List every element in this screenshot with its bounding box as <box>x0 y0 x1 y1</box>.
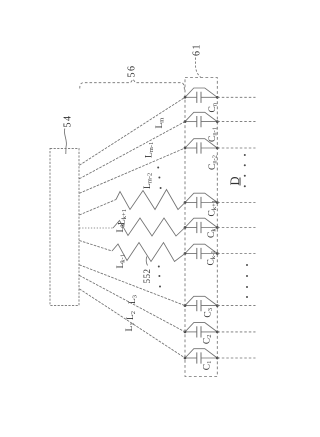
capacitor Cn-1 plates <box>196 116 198 127</box>
ellipsis dots in upper output gap <box>244 154 246 187</box>
leader line for label 552 <box>146 257 147 266</box>
LC unit 9: wire from capacitor to output node <box>201 357 217 359</box>
LC unit 3: input node <box>184 147 187 150</box>
LC unit 7: inductor hump <box>185 296 217 305</box>
LC unit 3: output wire <box>217 147 255 149</box>
LC unit 3: inductor hump <box>185 139 217 148</box>
svg-text:56: 56 <box>127 65 138 78</box>
LC unit 9: input node <box>184 357 187 360</box>
wire Lm-1 <box>79 122 185 179</box>
ellipsis dots between Lm-2 and Lk+1 <box>157 167 161 190</box>
LC unit 7: wire from input node to capacitor <box>185 305 197 307</box>
capacitor Cn plates <box>196 92 198 103</box>
LC unit 1: inductor hump <box>185 88 217 97</box>
LC unit 4: output node <box>216 201 219 204</box>
capacitor Ck plates <box>196 222 198 233</box>
brace bracket 56 <box>80 79 185 91</box>
leader line for label 54 <box>64 129 66 155</box>
LC unit 2: output wire <box>217 121 255 123</box>
LC unit 8: output node <box>216 331 219 334</box>
wire Lk+1 feed <box>79 200 116 216</box>
dashed box 61 <box>185 78 217 377</box>
LC unit 2: output node <box>216 120 219 123</box>
LC unit 1: input node <box>184 96 187 99</box>
LC unit 8: wire from input node to capacitor <box>185 331 197 333</box>
LC unit 7: wire from capacitor to output node <box>201 305 217 307</box>
LC unit 7: output node <box>216 304 219 307</box>
LC unit 6: wire from capacitor to output node <box>201 253 217 255</box>
wire Lm-2 <box>79 148 185 193</box>
LC unit 9: output node <box>216 357 219 360</box>
svg-text:54: 54 <box>63 115 74 128</box>
LC unit 7: output wire <box>217 305 255 307</box>
ellipsis dots in lower output gap <box>246 264 248 298</box>
wire Lm <box>79 97 185 165</box>
wire L1 <box>79 289 185 358</box>
LC unit 1: wire from input node to capacitor <box>185 96 197 98</box>
LC unit 8: output wire <box>217 331 255 333</box>
wire Lk feed (dotted) <box>79 227 113 229</box>
LC unit 5: output wire <box>217 227 255 229</box>
resistor zigzag of wire Lk+1 <box>116 190 185 210</box>
capacitor Cn-2 plates <box>196 142 198 153</box>
LC unit 9: output wire <box>217 357 255 359</box>
LC unit 9: inductor hump <box>185 349 217 358</box>
LC unit 2: wire from input node to capacitor <box>185 121 197 123</box>
LC unit 4: wire from input node to capacitor <box>185 202 197 204</box>
LC unit 6: inductor hump <box>185 244 217 253</box>
LC unit 6: input node <box>184 252 187 255</box>
LC unit 8: wire from capacitor to output node <box>201 331 217 333</box>
LC unit 2: wire from capacitor to output node <box>201 121 217 123</box>
underline of label D <box>239 178 241 186</box>
wire L2 <box>79 275 185 332</box>
LC unit 6: output node <box>216 252 219 255</box>
LC unit 5: wire from capacitor to output node <box>201 227 217 229</box>
LC unit 2: input node <box>184 120 187 123</box>
LC unit 3: wire from capacitor to output node <box>201 147 217 149</box>
LC unit 6: wire from input node to capacitor <box>185 253 197 255</box>
LC unit 6: output wire <box>217 253 255 255</box>
LC unit 1: output wire <box>217 96 255 98</box>
wire L3 <box>79 265 185 306</box>
LC unit 9: wire from input node to capacitor <box>185 357 197 359</box>
LC unit 4: input node <box>184 201 187 204</box>
LC unit 3: output node <box>216 147 219 150</box>
wire Lk-1 feed <box>79 241 112 252</box>
LC unit 8: inductor hump <box>185 323 217 332</box>
LC unit 5: input node <box>184 226 187 229</box>
leader line for label 61 <box>196 58 201 78</box>
ellipsis dots between Lk-1 and L3 <box>158 266 161 288</box>
capacitor C1 plates <box>196 352 198 363</box>
capacitor C2 plates <box>196 326 198 337</box>
capacitor Ck+1 plates <box>196 197 198 208</box>
capacitor C3 plates <box>196 300 198 311</box>
LC unit 1: output node <box>216 96 219 99</box>
LC unit 3: wire from input node to capacitor <box>185 147 197 149</box>
LC unit 8: input node <box>184 331 187 334</box>
transducer block 54 <box>50 148 79 305</box>
LC unit 5: output node <box>216 226 219 229</box>
capacitor Ck-1 plates <box>196 248 198 259</box>
LC unit 1: wire from capacitor to output node <box>201 96 217 98</box>
LC unit 5: inductor hump <box>185 218 217 227</box>
LC unit 4: wire from capacitor to output node <box>201 202 217 204</box>
resistor zigzag of wire Lk <box>113 218 185 236</box>
LC unit 2: inductor hump <box>185 112 217 121</box>
resistor zigzag of wire Lk-1 <box>112 243 185 262</box>
LC unit 5: wire from input node to capacitor <box>185 227 197 229</box>
LC unit 4: inductor hump <box>185 193 217 202</box>
LC unit 4: output wire <box>217 202 255 204</box>
svg-text:61: 61 <box>192 43 203 56</box>
LC unit 7: input node <box>184 304 187 307</box>
svg-text:552: 552 <box>142 269 152 284</box>
